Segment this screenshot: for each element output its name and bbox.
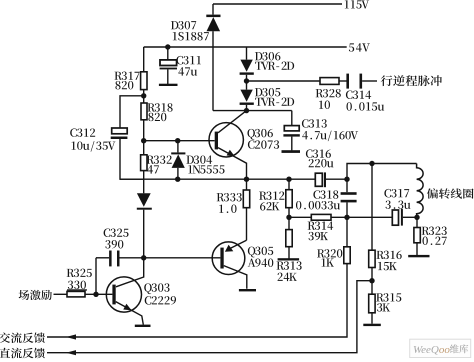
wire to Q305 base (144, 257, 221, 259)
label 直流反馈 (0, 348, 45, 359)
wire DC feedback (47, 281, 372, 353)
label R328 10 (316, 89, 341, 109)
wire 115V rail (213, 3, 342, 5)
node base-C325 (93, 292, 98, 297)
arrow AC feedback (66, 334, 76, 339)
node R316-R315-DC (369, 278, 374, 283)
label R332 47 (147, 155, 172, 173)
diode D308 (137, 179, 152, 258)
watermark text (413, 344, 468, 356)
label R325 330 (67, 269, 92, 291)
resistor R316 15K (369, 164, 375, 281)
node coilline-R316 (369, 161, 374, 166)
capacitor C316 220u (315, 172, 347, 187)
wire emitter rail (120, 178, 315, 180)
capacitor C311 47u (160, 47, 177, 84)
diode D305 TVR-2D (240, 90, 254, 111)
label R315 3K (376, 293, 401, 311)
label C318 0.0033u (296, 190, 340, 209)
label 115V (345, 0, 369, 8)
ground R323 (408, 255, 429, 257)
label 54V (349, 43, 370, 51)
transistor Q305 A940 (212, 240, 247, 288)
wire up to coil line (347, 164, 417, 180)
wire C314 out (362, 80, 377, 82)
label R323 0.27 (422, 227, 447, 245)
ground Q305 collector (239, 289, 256, 291)
label Q306 C2073 (247, 129, 279, 149)
diode D307 1S1887 (206, 4, 220, 111)
wire AC feedback (47, 264, 347, 337)
diode D306 TVR-2D (240, 47, 254, 90)
node coil-C317-R323 (414, 215, 419, 220)
node C311 tap (165, 44, 170, 49)
resistor R320 1K (344, 217, 350, 263)
wire drive in (54, 293, 68, 295)
ground R313 (278, 258, 300, 260)
label R317 820 (114, 72, 139, 90)
wire C325 drop (95, 258, 97, 295)
resistor R332 47 (141, 141, 147, 180)
label C316 220u (306, 149, 334, 167)
label D307 (171, 21, 209, 40)
label D306 (255, 52, 294, 70)
wire pulse line (247, 80, 321, 82)
node base-D304 (175, 138, 180, 143)
node D306-D305 (244, 78, 249, 83)
arrow DC feedback (66, 350, 76, 355)
node C316-C318 (344, 177, 349, 182)
capacitor C318 0.0033u (341, 179, 357, 217)
label R318 820 (147, 103, 172, 121)
label 交流反馈 (0, 332, 45, 343)
capacitor C313 4.7u/160V (283, 111, 299, 151)
svg-text:WeeQoo: WeeQoo (413, 344, 450, 356)
resistor R328 10 (320, 78, 339, 85)
node Q303 collector (141, 255, 146, 260)
watermark box (410, 339, 471, 357)
label D304 1N5555 (186, 155, 224, 173)
ground C313 (282, 150, 301, 153)
node rail-Q306-R333 (244, 177, 249, 182)
transistor Q306 C2073 (209, 111, 247, 180)
label R316 15K (376, 251, 401, 271)
transistor Q303 C2229 (106, 258, 143, 325)
label R312 62K (259, 191, 284, 210)
label C317 3.3u (384, 189, 410, 209)
wire collector to C313 (247, 110, 292, 112)
label C314 0.015u (346, 91, 384, 111)
node base-R332 (141, 138, 146, 143)
resistor R312 62K (286, 179, 292, 217)
wire D307 to collector node (213, 110, 247, 112)
label C312 10u/35V (70, 128, 115, 151)
resistor R315 3K (369, 281, 375, 324)
label C313 4.7u/160V (302, 119, 358, 141)
resistor R325 330 (67, 291, 85, 297)
resistor R317 820 (141, 47, 147, 96)
resistor R314 39K (311, 214, 331, 220)
node rail-D304 (175, 177, 180, 182)
node R312-R313-R314 (286, 215, 291, 220)
label R320 1K (317, 249, 342, 266)
label R313 24K (277, 261, 302, 281)
label C311 47u (176, 56, 200, 76)
wire to C312 (120, 96, 144, 130)
resistor R318 820 (141, 96, 147, 141)
wire midline left (289, 216, 311, 218)
node C318-R314-R320 (344, 215, 349, 220)
capacitor C325 390 (96, 251, 144, 267)
label 偏转线圈 (427, 188, 474, 198)
wire R325-base (85, 293, 112, 295)
node collector 115V-damper (244, 108, 249, 113)
label D305 (255, 88, 294, 106)
label R314 39K (308, 221, 333, 240)
label Q305 A940 (248, 247, 274, 267)
label R333 1.0 (217, 193, 242, 213)
node rail-R312 (286, 177, 291, 182)
ground R315 (363, 324, 381, 326)
label Q303 C2229 (144, 283, 176, 304)
ground Q303 emitter (135, 325, 151, 327)
resistor R313 24K (286, 217, 292, 258)
diode D304 1N5555 (171, 141, 185, 180)
wire R314-C317 (331, 216, 392, 218)
capacitor C314 0.015u (346, 74, 362, 89)
resistor R333 1.0 (243, 179, 249, 240)
label 行逆程脉冲 (381, 75, 442, 86)
wire R328-C314 (339, 80, 347, 82)
label 场激励 (19, 290, 52, 300)
resistor R323 0.27 (414, 217, 420, 255)
node R317-R318-C312 (141, 93, 146, 98)
ground C311 (159, 84, 178, 86)
wire Q306 base line (144, 140, 215, 142)
capacitor C317 3.3u (392, 209, 417, 226)
label C325 390 (104, 229, 129, 249)
capacitor C312 10u/35V (111, 128, 144, 179)
inductor deflection coil (417, 164, 424, 218)
wire 54V rail (144, 46, 347, 48)
